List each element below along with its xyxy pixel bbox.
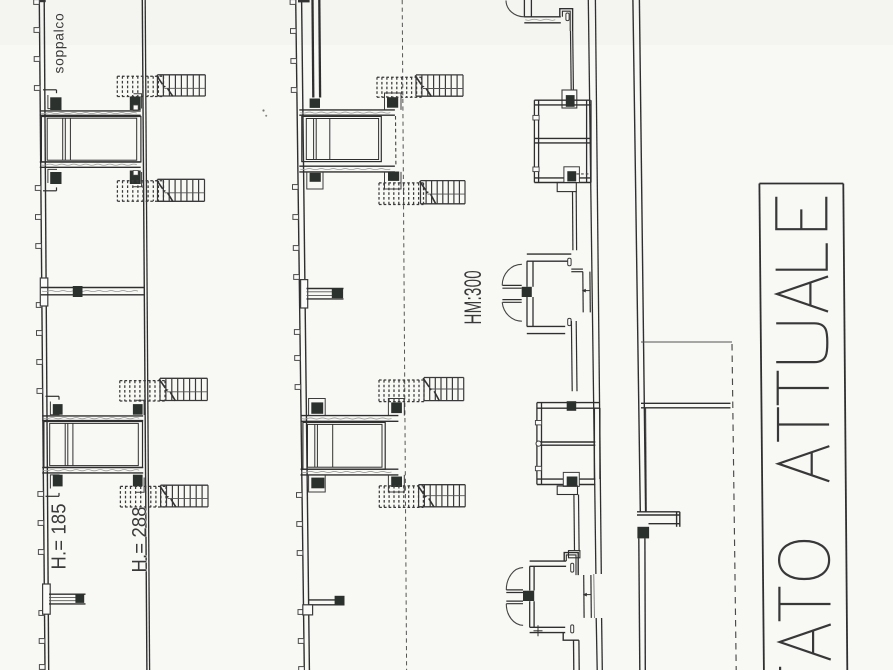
stair flight solid row D strip2 [419,485,466,507]
stair break arrow row A strip1 [157,75,173,96]
wire right room inner line [645,408,648,512]
title text STATO ATTUALE (rotated) [776,198,830,670]
pillar S1-H [53,475,63,487]
pillar S2-E stub cap [332,288,343,298]
pillar S1-E mid wall [73,286,83,297]
stair flight dashed row D strip1 [120,486,166,507]
wall rooms34 top (double) [537,403,599,409]
wire dashed boundary right [732,344,736,670]
pillar R1 [566,95,575,107]
wall rooms12 bottom (double) [534,178,591,183]
wall strip2 sw2 top (double with hatch) [301,416,399,422]
wire corridor inner pair upper [583,272,591,313]
pillar S2-F [311,402,323,413]
pillar R5 housing [563,472,579,486]
wall Z-step far right [637,512,680,527]
stair shaft box stairwell2 [44,422,143,468]
step outline below rooms34 [557,486,577,495]
stair shaft box strip2 sw2 [303,422,385,469]
pillar R7 far right [637,527,649,539]
stair flight solid row D strip1 [161,485,208,507]
label H.= 288 [129,506,151,572]
pillar R2 housing [564,167,580,183]
wire wall strip1 corridor right (double line) [142,0,149,670]
wire wall strip3 corridor (double, with door gap) [588,0,602,670]
wall rooms34 bottom (double) [537,479,595,484]
pillar S2-B [387,97,398,108]
wire wall strip2 thick inner top [313,0,321,98]
door slot apse2 bottom [571,625,574,633]
pillar R5 [567,477,578,487]
pillar S2-C [310,173,321,182]
pillar S2-H [311,478,324,489]
wire partition rooms34-apse2 [574,495,579,551]
pillar R2 [567,171,576,181]
wire apse left wall lower [527,297,533,326]
stair flight solid row C strip2 [424,378,464,401]
wall stairwell2 top (double with hatch) [42,416,143,421]
stair flight solid row B strip2 [421,181,466,204]
niche outline lower-right stairwell1 [134,172,142,187]
pillar S2-I [391,477,402,488]
arrow corridor lower [583,593,591,597]
pilaster strip1 bottom [43,584,51,614]
stair break arrow row B strip1 [157,180,173,202]
door notch rooms34 left lower [535,466,541,470]
niche outline upper-left strip2 sw2 [309,399,326,416]
door leaf apse lower [502,300,521,303]
wire rooms12 right wall [587,100,591,182]
pillar S1-I [133,475,143,487]
wall rooms34 middle (double) [537,442,595,445]
pillar S1-A [50,97,61,110]
wall stairwell1 bottom (double with hatch) [40,162,141,167]
niche outline lower-left strip2 sw2 [309,475,326,492]
scanner grey band top [0,0,893,45]
door leaf top-left strip3 [524,0,531,17]
arrow corridor upper [582,289,590,293]
stair flight dashed row B strip2 [379,183,424,205]
door swing arc apse2 upper [506,568,523,590]
niche outline upper-right strip2 sw2 [388,399,404,416]
step outline below rooms12 [557,183,576,192]
wall apse top (double) [527,254,572,261]
stair break arrow row C strip1 [159,379,175,401]
stair flight dashed row B strip1 [117,181,163,202]
wire partition rooms12-apse [573,192,577,251]
title block border [759,184,847,670]
pillar S1-F [53,404,63,415]
wall stub strip2 bottom (bar) [309,600,345,605]
stair break arrow row D strip2 [418,485,434,507]
door swing arc apse lower [502,302,522,321]
door slot apse top right [568,258,571,265]
wall apse bottom (double) [527,326,565,333]
stair break arrow row D strip1 [160,486,176,507]
jog box partition bottom [569,551,580,558]
wall strip2 sw2 bottom (double with hatch) [301,469,399,475]
pillar S1-C [50,172,61,184]
stair flight dashed row C strip1 [120,381,165,401]
pillar housing R1 [562,90,577,108]
door slot apse2 top [571,563,574,572]
stair flight dashed row C strip2 [379,380,424,402]
pillar S1-J stub cap [75,594,84,603]
hinge circle rooms34 divider [536,441,541,446]
stair flight dashed row D strip2 [379,486,423,508]
label H.= 185 [49,503,71,569]
stair shaft box strip2 sw1 [302,116,382,161]
wall strip3 top jog [560,9,573,31]
door leaf apse2 upper [506,590,523,593]
wall cap strip2 top [298,0,310,2]
wall stairwell2 bottom (double with hatch) [42,468,143,473]
wire room line right single [641,341,732,343]
pillar S2-D [388,172,399,181]
stair flight solid row A strip1 [157,75,205,96]
door notch rooms12 left lower [533,167,539,172]
stair flight solid row B strip1 [158,179,205,201]
wall apse2 top jog [564,553,578,576]
wall rooms12 top (double) [534,100,590,105]
label HM:300 [461,270,487,324]
wall strip2 sw1 bottom (double with hatch) [299,166,395,172]
wire dashed tie pillar R2 [576,173,590,175]
pillar R6 apse2 doorpost [523,591,534,601]
survey cross mark [534,625,543,636]
wire apse2 left wall lower [530,601,534,627]
label soppalco [52,13,67,74]
wire wall below apse2 [574,640,580,670]
niche outline lower-left stairwell2 [46,475,60,496]
wall cap strip1 top [40,0,46,2]
wire apse corridor connector [571,269,583,272]
wall stairwell1 top (double with hatch) [40,111,141,115]
wire apse2 left wall upper [530,566,534,590]
door swing arc apse upper [502,264,522,285]
wall strip2 sw1 top (double with hatch) [299,110,395,115]
wall apse2 bottom (double) [530,627,566,632]
speck dots [262,109,267,116]
wire wall strip1 outer left (double line) [39,0,48,670]
pilaster jog strip2 bottom [303,605,313,615]
niche outline upper-right strip2 sw1 [385,93,402,110]
niche outline lower-right strip2 sw1 [385,172,402,189]
wire apse left wall upper [527,261,533,287]
wall right room top (double) [641,403,731,408]
wire wall strip2 outer left (double line) [296,0,310,670]
wire rooms34 right wall [594,408,600,479]
stair break arrow row C strip2 [423,378,439,401]
niche outline upper-right stairwell1 [134,94,142,109]
pillar S2-J stub cap [335,596,345,605]
pillar R4 [567,401,577,411]
pillar S2-A [310,99,320,108]
wall strip1 mid horizontal [41,288,145,295]
wall apse2 bottom jog [563,633,579,641]
window ticks strip2 outer wall [290,0,304,670]
door leaf apse2 lower [506,601,523,604]
pillar S1-G [133,404,143,415]
wire rooms12 left wall [534,100,538,182]
stair shaft box stairwell1 [41,117,140,162]
wire partition apse-rooms34 [571,321,577,391]
wire dashed segment right of shaft strip2 [395,116,397,166]
wire wall strip3 far right lower [639,538,646,670]
door slot strip3 top [566,13,569,21]
wall apse2 top (double) [530,561,567,566]
svg-text:H.= 185: H.= 185 [49,503,71,569]
pillar S1-B [130,97,141,111]
wall stub strip1 bottom (bar) [49,594,86,604]
pillar S2-G [391,402,402,413]
wall strip3 top horizontal [524,17,561,23]
stair flight dashed row A strip1 [117,76,163,96]
stair flight solid row C strip1 [160,378,207,400]
door leaf apse upper [502,285,521,288]
pilaster strip1 mid [40,278,48,306]
wire rooms34 left wall [537,403,542,485]
wall rooms12 middle (double) [534,138,591,143]
pilaster strip2 mid [301,280,308,308]
svg-text:H.= 288: H.= 288 [129,506,151,572]
door notch rooms34 left upper [535,421,541,425]
window ticks strip1 outer wall [34,0,45,669]
niche outline lower-left strip2 sw1 [307,172,323,189]
stair break arrow row B strip2 [420,181,436,204]
niche outline lower-left stairwell1 [43,169,57,190]
pillar S1-D [130,171,141,185]
niche outline lower-right stairwell2 [136,478,144,493]
svg-text:HM:300: HM:300 [461,270,487,324]
stair flight solid row A strip2 [416,75,463,96]
stair break arrow row A strip2 [415,76,431,97]
door swing arc top-left strip3 [506,1,524,17]
wire dashed axis line strip2 [402,0,406,670]
svg-text:soppalco: soppalco [52,13,67,74]
wire corridor inner pair lower [584,575,592,618]
pillar R3 apse doorpost [522,287,532,297]
niche outline upper-left stairwell2 [46,396,60,414]
door notch rooms12 left upper [533,115,539,120]
niche outline upper-right stairwell2 [136,400,144,415]
door slot apse bottom right [568,318,571,325]
wire wall strip3 far right (double line) [633,0,646,512]
wall stub strip2 mid (bar) [307,289,344,299]
door swing arc apse2 lower [506,604,523,626]
wire partition strip3 upper [571,31,574,90]
niche outline lower-right strip2 sw2 [388,475,404,492]
stair flight dashed row A strip2 [377,77,422,97]
niche outline upper-left stairwell1 [43,90,57,109]
